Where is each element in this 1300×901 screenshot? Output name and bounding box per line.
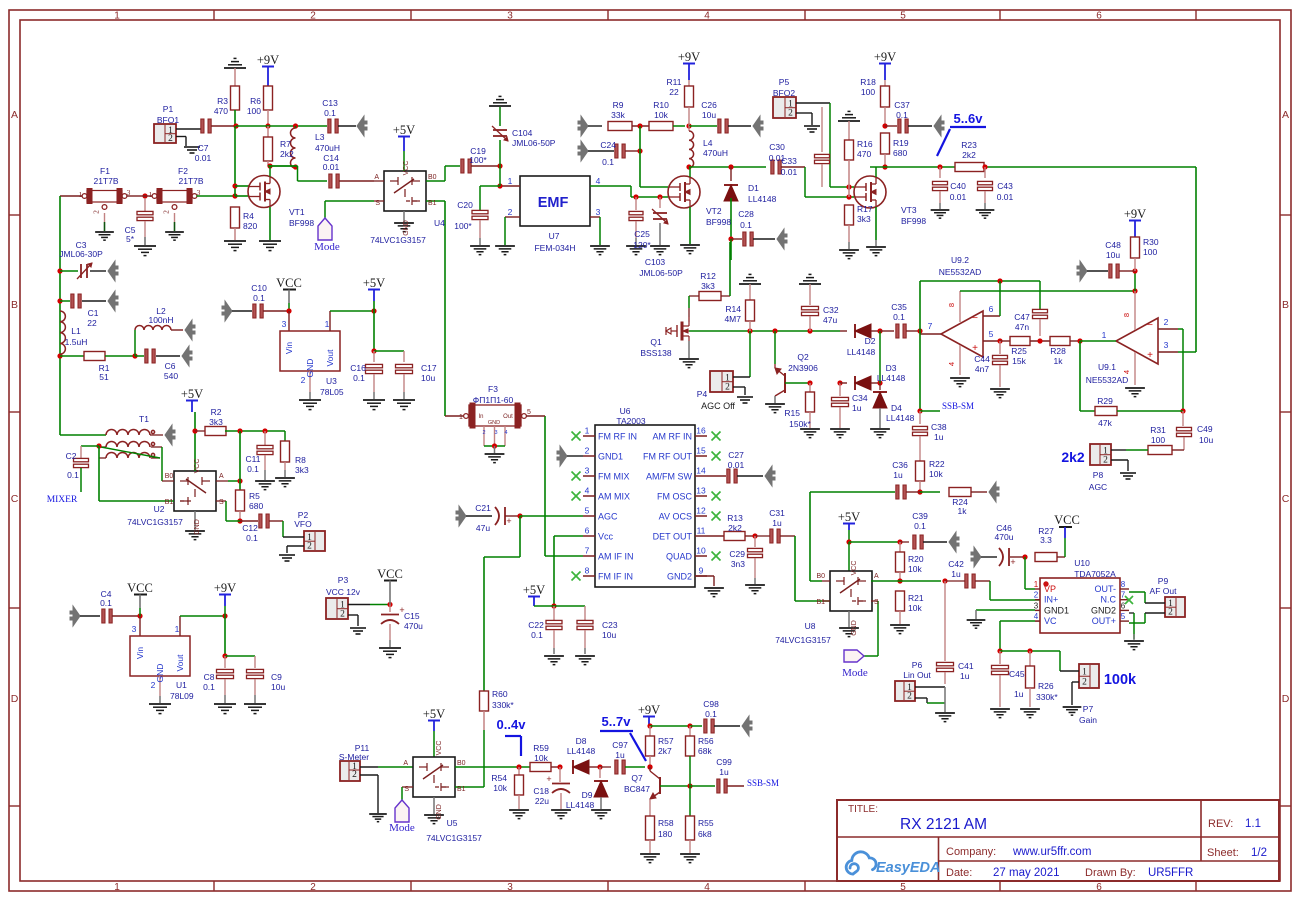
svg-text:VP: VP [1044, 584, 1056, 594]
svg-text:GND2: GND2 [1091, 605, 1116, 615]
svg-text:7: 7 [585, 546, 590, 556]
svg-text:1.1: 1.1 [1245, 818, 1261, 830]
svg-text:R18: R18 [860, 77, 876, 87]
svg-text:6: 6 [1096, 882, 1102, 893]
svg-text:1: 1 [175, 624, 180, 634]
svg-text:540: 540 [164, 371, 178, 381]
svg-text:2: 2 [168, 134, 173, 144]
svg-text:+: + [1147, 350, 1153, 361]
svg-text:7: 7 [928, 321, 933, 331]
svg-text:2: 2 [508, 207, 513, 217]
svg-text:GND: GND [436, 804, 443, 820]
svg-text:B: B [1282, 299, 1289, 311]
svg-text:D: D [11, 693, 19, 705]
svg-text:EasyEDA: EasyEDA [876, 860, 940, 876]
svg-text:Sheet:: Sheet: [1207, 847, 1239, 859]
svg-text:1.5uH: 1.5uH [65, 337, 88, 347]
svg-text:5: 5 [989, 329, 994, 339]
svg-text:R23: R23 [961, 140, 977, 150]
svg-text:C7: C7 [198, 143, 209, 153]
svg-text:U8: U8 [805, 621, 816, 631]
svg-text:1u: 1u [951, 569, 961, 579]
svg-text:2: 2 [585, 446, 590, 456]
svg-text:A: A [403, 760, 408, 767]
svg-text:IN+: IN+ [1044, 595, 1058, 605]
svg-text:L3: L3 [315, 132, 325, 142]
svg-text:2: 2 [1164, 317, 1169, 327]
svg-text:47u: 47u [476, 523, 490, 533]
svg-text:D3: D3 [886, 363, 897, 373]
svg-text:R56: R56 [698, 736, 714, 746]
svg-text:0.1: 0.1 [247, 464, 259, 474]
svg-text:2k2: 2k2 [1061, 449, 1085, 465]
svg-text:OUT-: OUT- [1095, 584, 1117, 594]
svg-text:2: 2 [310, 11, 316, 22]
svg-text:C37: C37 [894, 100, 910, 110]
svg-text:VCC: VCC [377, 567, 403, 581]
svg-text:R59: R59 [533, 743, 549, 753]
svg-text:R31: R31 [1150, 425, 1166, 435]
svg-text:R5: R5 [249, 491, 260, 501]
svg-text:L4: L4 [703, 138, 713, 148]
svg-text:1u: 1u [719, 767, 729, 777]
svg-text:C13: C13 [322, 98, 338, 108]
svg-text:C49: C49 [1197, 424, 1213, 434]
svg-text:C42: C42 [948, 559, 964, 569]
svg-text:S: S [404, 786, 409, 793]
svg-text:R54: R54 [491, 773, 507, 783]
svg-text:C32: C32 [823, 305, 839, 315]
svg-text:74LVC1G3157: 74LVC1G3157 [127, 517, 183, 527]
svg-text:0.01: 0.01 [728, 460, 745, 470]
svg-text:680: 680 [249, 501, 263, 511]
svg-text:LL4148: LL4148 [566, 800, 595, 810]
svg-text:100: 100 [861, 87, 875, 97]
svg-text:GND: GND [488, 420, 500, 426]
svg-text:1: 1 [1034, 580, 1039, 589]
svg-text:10k: 10k [493, 783, 507, 793]
svg-text:GND: GND [305, 359, 315, 378]
svg-text:8: 8 [947, 303, 956, 307]
svg-text:8: 8 [1121, 580, 1126, 589]
svg-text:B0: B0 [816, 573, 825, 580]
svg-text:21T7B: 21T7B [178, 176, 203, 186]
svg-text:51: 51 [99, 372, 109, 382]
svg-text:+9V: +9V [214, 581, 236, 595]
svg-text:AV OCS: AV OCS [659, 512, 692, 522]
svg-text:100: 100 [1151, 435, 1165, 445]
svg-text:C98: C98 [703, 699, 719, 709]
svg-text:2: 2 [310, 882, 316, 893]
svg-text:C31: C31 [769, 508, 785, 518]
svg-text:1: 1 [585, 426, 590, 436]
svg-text:R14: R14 [725, 304, 741, 314]
svg-text:6: 6 [1121, 601, 1126, 610]
svg-text:JML06-50P: JML06-50P [512, 138, 556, 148]
svg-text:Drawn By:: Drawn By: [1085, 867, 1136, 879]
svg-text:10u: 10u [702, 110, 716, 120]
svg-text:3k3: 3k3 [857, 214, 871, 224]
svg-text:2N3906: 2N3906 [788, 363, 818, 373]
svg-text:R16: R16 [857, 139, 873, 149]
svg-text:5: 5 [900, 11, 906, 22]
svg-text:2: 2 [162, 210, 171, 214]
svg-text:D9: D9 [582, 790, 593, 800]
svg-text:C43: C43 [997, 181, 1013, 191]
svg-text:A: A [874, 573, 879, 580]
svg-text:VT1: VT1 [289, 207, 305, 217]
svg-text:10: 10 [696, 546, 706, 556]
svg-text:2: 2 [1103, 455, 1108, 465]
svg-text:470uH: 470uH [315, 143, 340, 153]
svg-text:VFO: VFO [294, 519, 312, 529]
svg-text:R19: R19 [893, 138, 909, 148]
svg-text:10k: 10k [534, 753, 548, 763]
svg-text:C20: C20 [457, 200, 473, 210]
svg-text:0.1: 0.1 [531, 630, 543, 640]
svg-text:FM MIX: FM MIX [598, 472, 630, 482]
svg-text:+: + [506, 516, 511, 526]
svg-text:VCC: VCC [1054, 513, 1080, 527]
svg-text:0.1: 0.1 [893, 312, 905, 322]
svg-text:3: 3 [507, 882, 513, 893]
svg-text:2: 2 [151, 680, 156, 690]
svg-text:21T7B: 21T7B [93, 176, 118, 186]
svg-text:22u: 22u [535, 796, 549, 806]
svg-text:+: + [972, 343, 978, 354]
svg-text:74LVC1G3157: 74LVC1G3157 [426, 833, 482, 843]
svg-text:C11: C11 [246, 454, 261, 464]
svg-text:10k: 10k [908, 564, 922, 574]
svg-text:0.1: 0.1 [740, 220, 752, 230]
svg-text:1: 1 [114, 11, 120, 22]
svg-text:4: 4 [947, 362, 956, 366]
svg-text:470uH: 470uH [703, 148, 728, 158]
svg-text:4: 4 [1034, 612, 1039, 621]
svg-text:C17: C17 [421, 363, 437, 373]
svg-text:C35: C35 [891, 302, 907, 312]
svg-text:C103: C103 [645, 257, 666, 267]
svg-text:15: 15 [696, 446, 706, 456]
svg-text:1u: 1u [893, 470, 903, 480]
svg-text:+: + [546, 774, 551, 784]
svg-text:3: 3 [1034, 601, 1039, 610]
svg-text:S: S [874, 599, 879, 606]
svg-text:+5V: +5V [363, 276, 385, 290]
svg-text:5: 5 [1121, 612, 1126, 621]
svg-text:R28: R28 [1050, 346, 1066, 356]
svg-text:68k: 68k [698, 746, 712, 756]
svg-text:C41: C41 [958, 661, 974, 671]
svg-text:BSS138: BSS138 [640, 348, 671, 358]
svg-text:3k3: 3k3 [209, 417, 223, 427]
svg-text:3: 3 [1164, 340, 1169, 350]
svg-text:S: S [219, 499, 224, 506]
svg-text:74LVC1G3157: 74LVC1G3157 [370, 235, 426, 245]
svg-text:AGC: AGC [1089, 482, 1107, 492]
svg-text:Mode: Mode [389, 822, 415, 834]
svg-text:FEM-034H: FEM-034H [534, 243, 575, 253]
svg-text:0.1: 0.1 [705, 709, 717, 719]
svg-text:+9V: +9V [638, 703, 660, 717]
svg-text:2: 2 [482, 430, 485, 436]
svg-text:BFO2: BFO2 [773, 88, 795, 98]
svg-text:C33: C33 [781, 156, 797, 166]
svg-text:R8: R8 [295, 455, 306, 465]
svg-text:1k: 1k [958, 506, 968, 516]
svg-text:2: 2 [307, 542, 312, 552]
svg-text:VCC: VCC [851, 561, 858, 576]
svg-text:2: 2 [907, 692, 912, 702]
svg-text:B0: B0 [428, 174, 437, 181]
svg-text:P4: P4 [697, 389, 708, 399]
svg-text:3.3: 3.3 [1040, 535, 1052, 545]
svg-text:AM IF IN: AM IF IN [598, 552, 634, 562]
svg-text:10k: 10k [908, 603, 922, 613]
svg-text:2: 2 [340, 609, 345, 619]
svg-text:LL4148: LL4148 [886, 413, 915, 423]
svg-text:3k3: 3k3 [701, 281, 715, 291]
svg-text:1/2: 1/2 [1251, 847, 1267, 859]
svg-text:10u: 10u [1106, 250, 1120, 260]
svg-text:C1: C1 [88, 308, 99, 318]
svg-text:10u: 10u [421, 373, 435, 383]
svg-text:C30: C30 [769, 142, 785, 152]
svg-text:120*: 120* [633, 240, 651, 250]
svg-text:R11: R11 [667, 77, 682, 87]
svg-text:6: 6 [1096, 11, 1102, 22]
svg-text:P7: P7 [1083, 704, 1094, 714]
svg-text:B0: B0 [457, 760, 466, 767]
svg-text:330k*: 330k* [492, 700, 514, 710]
svg-text:C38: C38 [931, 422, 947, 432]
svg-text:100*: 100* [454, 221, 472, 231]
svg-text:2k7: 2k7 [658, 746, 672, 756]
svg-text:C8: C8 [204, 672, 215, 682]
svg-text:C40: C40 [950, 181, 966, 191]
svg-text:F1: F1 [100, 166, 110, 176]
svg-text:BF998: BF998 [901, 216, 926, 226]
svg-text:2k2: 2k2 [962, 150, 976, 160]
svg-text:GND1: GND1 [1044, 605, 1069, 615]
svg-text:R2: R2 [211, 407, 222, 417]
svg-text:5: 5 [527, 409, 531, 416]
svg-text:78L09: 78L09 [170, 691, 194, 701]
svg-text:R17: R17 [857, 204, 873, 214]
svg-text:In: In [478, 414, 483, 420]
svg-text:R7: R7 [280, 139, 291, 149]
svg-text:7: 7 [1121, 591, 1126, 600]
svg-text:0.01: 0.01 [781, 167, 798, 177]
svg-text:1: 1 [325, 319, 330, 329]
svg-text:6: 6 [989, 304, 994, 314]
svg-text:GND1: GND1 [598, 452, 623, 462]
svg-text:9: 9 [699, 566, 704, 576]
svg-text:5: 5 [900, 882, 906, 893]
svg-text:B1: B1 [457, 786, 466, 793]
svg-text:C12: C12 [242, 523, 258, 533]
svg-text:+9V: +9V [257, 53, 279, 67]
svg-text:D8: D8 [576, 736, 587, 746]
svg-text:C25: C25 [634, 229, 650, 239]
svg-text:U2: U2 [154, 504, 165, 514]
svg-text:www.ur5ffr.com: www.ur5ffr.com [1012, 846, 1091, 858]
svg-text:4: 4 [504, 430, 507, 436]
svg-text:1u: 1u [1014, 689, 1024, 699]
svg-text:R57: R57 [658, 736, 674, 746]
svg-text:6k8: 6k8 [698, 829, 712, 839]
svg-text:FM RF IN: FM RF IN [598, 432, 637, 442]
svg-text:0.1: 0.1 [914, 521, 926, 531]
svg-text:2: 2 [725, 382, 730, 392]
svg-text:REV:: REV: [1208, 818, 1233, 830]
svg-text:LL4148: LL4148 [877, 373, 906, 383]
svg-text:FM OSC: FM OSC [657, 492, 692, 502]
svg-text:GND: GND [403, 220, 410, 236]
svg-text:C2: C2 [66, 451, 77, 461]
svg-text:3k3: 3k3 [295, 465, 309, 475]
svg-text:Gain: Gain [1079, 715, 1097, 725]
svg-text:B: B [11, 299, 18, 311]
svg-text:R55: R55 [698, 818, 714, 828]
svg-text:C27: C27 [728, 450, 744, 460]
svg-text:0.1: 0.1 [100, 598, 112, 608]
svg-text:Lin Out: Lin Out [903, 670, 931, 680]
svg-text:Q2: Q2 [797, 352, 809, 362]
svg-text:150k*: 150k* [789, 419, 811, 429]
svg-text:AM RF IN: AM RF IN [653, 432, 693, 442]
svg-text:47k: 47k [1098, 418, 1112, 428]
svg-text:6: 6 [585, 526, 590, 536]
svg-text:4: 4 [1122, 370, 1131, 374]
svg-text:U3: U3 [326, 376, 337, 386]
svg-text:GND: GND [194, 519, 201, 535]
svg-text:0.1: 0.1 [253, 293, 265, 303]
svg-text:5: 5 [585, 506, 590, 516]
svg-text:R20: R20 [908, 554, 924, 564]
svg-text:2k2: 2k2 [728, 523, 742, 533]
svg-text:LL4148: LL4148 [748, 194, 777, 204]
svg-text:180: 180 [658, 829, 672, 839]
svg-text:EMF: EMF [538, 195, 569, 211]
svg-text:Vcc: Vcc [598, 532, 614, 542]
svg-text:Q1: Q1 [650, 337, 662, 347]
svg-text:2: 2 [301, 375, 306, 385]
svg-text:+9V: +9V [874, 50, 896, 64]
svg-text:1: 1 [114, 882, 120, 893]
svg-text:470u: 470u [404, 621, 423, 631]
svg-text:47n: 47n [1015, 322, 1029, 332]
svg-text:U6: U6 [620, 406, 631, 416]
svg-text:D1: D1 [748, 183, 759, 193]
svg-text:1k: 1k [1054, 356, 1064, 366]
svg-text:T1: T1 [139, 414, 149, 424]
svg-text:3: 3 [585, 466, 590, 476]
svg-text:VCC: VCC [194, 459, 201, 474]
svg-text:470: 470 [214, 106, 228, 116]
svg-text:3n3: 3n3 [731, 559, 745, 569]
svg-text:C: C [11, 493, 19, 505]
svg-text:100*: 100* [469, 155, 487, 165]
svg-text:0.01: 0.01 [997, 192, 1014, 202]
svg-text:GND: GND [155, 664, 165, 683]
svg-text:C26: C26 [701, 100, 717, 110]
svg-text:Mode: Mode [842, 667, 868, 679]
svg-text:C10: C10 [251, 283, 267, 293]
svg-text:78L05: 78L05 [320, 387, 344, 397]
svg-text:C24: C24 [600, 140, 616, 150]
svg-text:OUT+: OUT+ [1092, 616, 1116, 626]
svg-text:D4: D4 [891, 403, 902, 413]
svg-text:+5V: +5V [523, 583, 545, 597]
svg-text:GND: GND [851, 620, 858, 636]
svg-text:BFO1: BFO1 [157, 115, 179, 125]
svg-text:R6: R6 [250, 96, 261, 106]
svg-text:+5V: +5V [181, 387, 203, 401]
svg-text:1: 1 [149, 190, 153, 199]
svg-text:U7: U7 [549, 231, 560, 241]
svg-text:R21: R21 [908, 593, 924, 603]
svg-text:RX 2121 AM: RX 2121 AM [900, 816, 987, 833]
svg-text:C36: C36 [892, 460, 908, 470]
svg-text:C45: C45 [1009, 669, 1025, 679]
svg-text:F3: F3 [488, 384, 498, 394]
svg-text:C21: C21 [475, 503, 491, 513]
svg-text:TA2003: TA2003 [616, 416, 645, 426]
svg-text:DET OUT: DET OUT [653, 532, 693, 542]
svg-text:B1: B1 [428, 200, 437, 207]
svg-text:C22: C22 [528, 620, 544, 630]
svg-text:C47: C47 [1014, 312, 1030, 322]
svg-text:AGC: AGC [598, 512, 618, 522]
svg-text:680: 680 [893, 148, 907, 158]
svg-text:0.1: 0.1 [203, 682, 215, 692]
svg-text:A: A [374, 174, 379, 181]
svg-text:QUAD: QUAD [666, 552, 693, 562]
svg-text:0..4v: 0..4v [497, 717, 527, 732]
svg-text:1: 1 [79, 190, 83, 199]
svg-text:Q7: Q7 [631, 773, 643, 783]
svg-text:0.1: 0.1 [67, 470, 79, 480]
svg-text:NE5532AD: NE5532AD [939, 267, 982, 277]
svg-text:C99: C99 [716, 757, 732, 767]
svg-text:Vout: Vout [175, 654, 185, 672]
svg-text:3: 3 [132, 624, 137, 634]
svg-text:R25: R25 [1011, 346, 1027, 356]
svg-text:−: − [1147, 320, 1153, 331]
svg-text:16: 16 [696, 426, 706, 436]
svg-text:5*: 5* [126, 234, 135, 244]
svg-text:B1: B1 [816, 599, 825, 606]
svg-text:2k2: 2k2 [280, 149, 294, 159]
svg-text:8: 8 [585, 566, 590, 576]
svg-text:F2: F2 [178, 166, 188, 176]
svg-text:NE5532AD: NE5532AD [1086, 375, 1129, 385]
svg-text:P1: P1 [163, 104, 174, 114]
svg-text:TDA7052A: TDA7052A [1074, 569, 1116, 579]
svg-text:+5V: +5V [423, 707, 445, 721]
svg-text:D2: D2 [865, 336, 876, 346]
svg-text:11: 11 [697, 526, 706, 536]
svg-text:330k*: 330k* [1036, 692, 1058, 702]
svg-text:U1: U1 [176, 680, 187, 690]
svg-text:1: 1 [1102, 330, 1107, 340]
svg-text:LL4148: LL4148 [567, 746, 596, 756]
svg-text:27 may 2021: 27 may 2021 [993, 867, 1060, 879]
svg-text:0.01: 0.01 [323, 162, 340, 172]
svg-text:C44: C44 [974, 354, 990, 364]
svg-text:R4: R4 [243, 211, 254, 221]
